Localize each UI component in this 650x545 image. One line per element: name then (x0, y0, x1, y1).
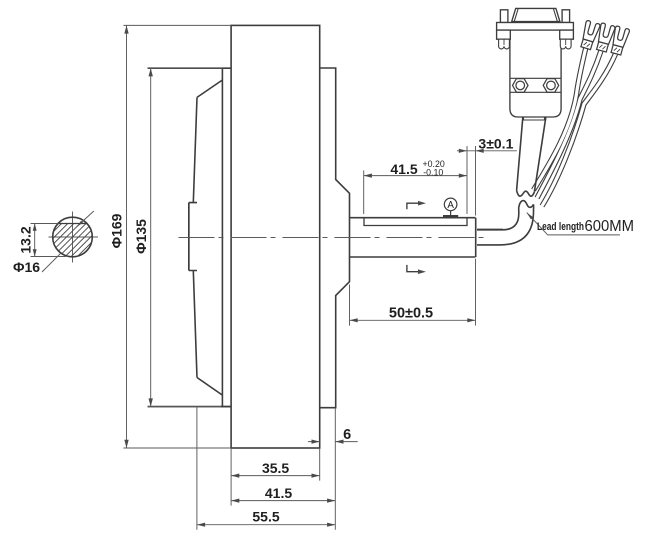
svg-text:55.5: 55.5 (252, 509, 279, 525)
svg-text:41.5: 41.5 (265, 485, 292, 501)
svg-text:3±0.1: 3±0.1 (478, 135, 513, 151)
svg-text:35.5: 35.5 (262, 460, 289, 476)
svg-text:Lead length: Lead length (537, 221, 584, 233)
svg-text:Φ169: Φ169 (109, 213, 125, 248)
svg-text:Φ16: Φ16 (13, 259, 40, 275)
svg-text:Φ135: Φ135 (133, 219, 149, 254)
svg-text:A: A (447, 200, 454, 211)
svg-text:600MM: 600MM (585, 218, 635, 235)
svg-text:41.5: 41.5 (390, 161, 417, 177)
svg-text:6: 6 (343, 427, 351, 443)
svg-text:-0.10: -0.10 (423, 168, 443, 178)
svg-text:13.2: 13.2 (18, 226, 34, 253)
svg-text:50±0.5: 50±0.5 (389, 305, 433, 321)
